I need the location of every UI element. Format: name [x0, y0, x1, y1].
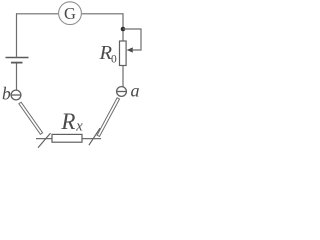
- svg-text:R: R: [60, 109, 75, 134]
- svg-text:x: x: [75, 119, 83, 135]
- svg-text:b: b: [2, 84, 11, 104]
- svg-text:G: G: [64, 4, 76, 23]
- svg-text:0: 0: [111, 54, 117, 66]
- svg-text:a: a: [131, 81, 140, 101]
